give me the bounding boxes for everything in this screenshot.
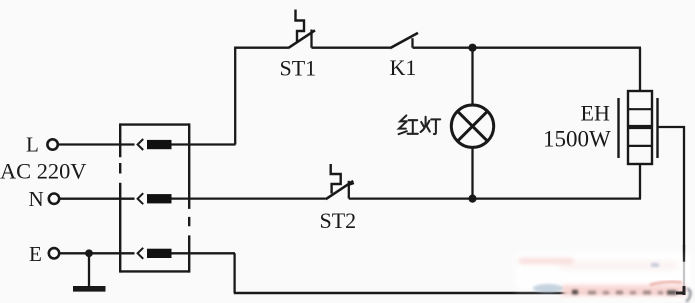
heater EH 1500W bbox=[619, 91, 658, 164]
ground bbox=[73, 253, 106, 288]
connector contact 2 (N) bbox=[138, 193, 172, 204]
wire N row bbox=[59, 197, 326, 199]
wire middle run to heater bbox=[349, 197, 641, 199]
wire L riser bbox=[234, 48, 236, 145]
svg-text:E: E bbox=[29, 242, 42, 266]
lamp (red indicator) bbox=[451, 105, 493, 147]
thermal switch ST2 bbox=[326, 164, 354, 199]
connector contact 3 (E) bbox=[138, 248, 172, 259]
svg-text:AC 220V: AC 220V bbox=[0, 158, 86, 183]
svg-text:K1: K1 bbox=[390, 55, 417, 80]
switch K1 bbox=[390, 33, 418, 48]
junction on E wire bbox=[85, 249, 93, 257]
junction top node bbox=[468, 44, 476, 52]
wire lamp top lead bbox=[471, 48, 473, 106]
wire heater bottom lead bbox=[639, 164, 641, 199]
svg-text:1500W: 1500W bbox=[543, 127, 611, 152]
junction middle node bbox=[468, 195, 476, 203]
wire L row bbox=[58, 143, 236, 145]
wire bottom run bbox=[234, 292, 684, 295]
wire E row bbox=[59, 252, 235, 254]
wire heater case to earth bbox=[658, 127, 685, 293]
svg-text:N: N bbox=[29, 187, 44, 211]
wire top run bbox=[234, 47, 641, 49]
connector X1 outline bbox=[120, 123, 189, 272]
wire E drop bbox=[233, 253, 235, 293]
label red lamp (hong deng) bbox=[399, 116, 441, 135]
svg-text:EH: EH bbox=[581, 101, 610, 126]
svg-text:ST2: ST2 bbox=[320, 208, 357, 233]
terminal L bbox=[47, 139, 57, 149]
watermark blob bbox=[516, 245, 691, 302]
terminal N bbox=[49, 194, 59, 204]
terminal E bbox=[49, 248, 59, 258]
wire heater top lead bbox=[639, 48, 641, 91]
thermal switch ST1 bbox=[288, 10, 315, 49]
svg-text:L: L bbox=[26, 133, 39, 157]
connector contact 1 (L) bbox=[138, 139, 172, 150]
wire lamp bottom lead bbox=[471, 148, 473, 199]
svg-text:ST1: ST1 bbox=[280, 56, 317, 81]
